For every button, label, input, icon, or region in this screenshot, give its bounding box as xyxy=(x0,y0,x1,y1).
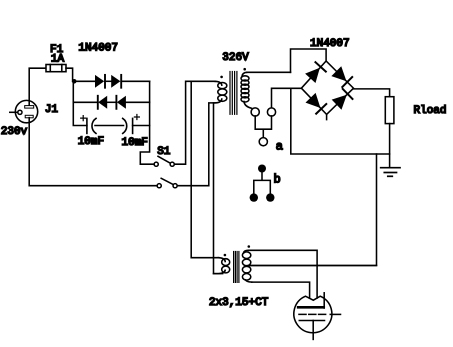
T2 core xyxy=(234,252,239,283)
resistor Rload xyxy=(385,97,394,124)
bridge diode lower-right xyxy=(332,89,353,110)
wire bridge bottom stub xyxy=(326,114,328,119)
svg-text:b: b xyxy=(274,173,281,187)
T1 core xyxy=(230,72,237,115)
transformer T2 xyxy=(214,245,252,282)
bridge diode upper-left xyxy=(305,62,326,83)
svg-text:1N4007: 1N4007 xyxy=(78,42,118,54)
svg-text:1N4007: 1N4007 xyxy=(310,38,350,50)
V1 cathode xyxy=(299,320,324,322)
svg-text:1A: 1A xyxy=(51,53,65,65)
wire D3 to D4 xyxy=(107,101,116,103)
wire junction to D1 xyxy=(74,80,95,82)
terminal post 3 xyxy=(259,138,267,146)
svg-text:10mF: 10mF xyxy=(78,136,104,148)
V1 anode lead xyxy=(323,293,325,308)
T1 secondary phase dot xyxy=(243,68,246,71)
wire T1 secondary top to bridge top xyxy=(247,71,291,73)
terminal post 1 xyxy=(251,108,259,116)
T2 primary winding xyxy=(214,258,230,274)
diode D2 xyxy=(111,75,121,88)
wire J1 top to fuse xyxy=(29,68,46,106)
connector J1 xyxy=(10,100,38,122)
ground xyxy=(381,168,400,177)
wire T2 secondary bottom to heater xyxy=(252,282,310,298)
link b post right xyxy=(266,193,274,201)
switch S1 pole b xyxy=(157,178,177,187)
wire S1b to T1 primary bottom xyxy=(177,103,215,186)
link a strap xyxy=(255,116,271,138)
bridge rectifier B1 xyxy=(301,61,353,114)
wire D2 to right rail xyxy=(121,80,149,82)
wire C1 to C2 xyxy=(95,125,124,127)
svg-text:326V: 326V xyxy=(222,52,249,64)
svg-text:10mF: 10mF xyxy=(122,137,148,149)
svg-text:Rload: Rload xyxy=(414,105,447,117)
diode D1 xyxy=(95,75,105,88)
wire heater CT riser xyxy=(250,154,377,266)
V1 envelope with heater notch xyxy=(294,296,332,333)
wire tap to T2 primary top xyxy=(191,81,218,257)
T1 primary phase dot xyxy=(220,76,223,79)
svg-text:230v: 230v xyxy=(1,126,28,138)
wire left rail xyxy=(73,81,87,125)
wire S1a to T1 primary top xyxy=(174,81,215,164)
wire bridge top feed xyxy=(291,49,327,72)
link b strap xyxy=(254,173,270,194)
tube V1 xyxy=(294,293,341,340)
bridge arms xyxy=(301,61,353,114)
wire bridge right to Rload xyxy=(354,89,390,97)
switch S1 pole a xyxy=(154,156,174,166)
bridge diode lower-left xyxy=(305,93,326,114)
diode D3 xyxy=(98,96,107,109)
capacitor C2 xyxy=(123,115,140,134)
svg-text:2x3,15+CT: 2x3,15+CT xyxy=(209,297,269,309)
wire Rload to ground xyxy=(389,124,391,168)
svg-text:a: a xyxy=(276,140,283,154)
T1 primary winding xyxy=(215,81,227,103)
V1 grid lead xyxy=(330,313,340,315)
capacitor C1 xyxy=(81,116,96,134)
wire C2 to right rail xyxy=(133,125,150,127)
wire right rail to S1a xyxy=(140,81,154,164)
link b post left xyxy=(250,193,258,201)
wire J1 bottom to S1b xyxy=(29,118,157,186)
wire row2 left xyxy=(73,101,97,103)
wire fuse to junction xyxy=(66,68,73,81)
wire T2 secondary top to heater xyxy=(249,250,318,298)
T2 primary phase dot xyxy=(224,254,227,257)
svg-text:J1: J1 xyxy=(45,104,59,116)
wire tap to T2 primary bottom xyxy=(214,103,223,274)
fuse F1 xyxy=(46,65,66,72)
junction dot xyxy=(72,79,77,84)
wire T2 CT lead xyxy=(249,265,377,267)
wire D1 to D2 xyxy=(105,80,111,82)
svg-text:S1: S1 xyxy=(157,146,171,158)
terminal post 2 xyxy=(267,108,275,116)
wire minus rail drop xyxy=(291,88,390,154)
wire bridge left to terminal xyxy=(272,88,302,108)
V1 grid xyxy=(299,313,327,315)
link b post top xyxy=(258,165,266,173)
transformer T1 xyxy=(215,68,252,114)
T2 secondary phase dot xyxy=(248,245,251,248)
T2 secondary winding xyxy=(242,250,251,282)
diode D4 xyxy=(116,96,126,109)
T1 secondary winding xyxy=(241,72,252,108)
V1 anode plate xyxy=(298,306,324,309)
wire D4 to right rail xyxy=(126,101,150,103)
bridge diode upper-right xyxy=(331,66,352,87)
V1 cathode lead xyxy=(312,321,314,340)
